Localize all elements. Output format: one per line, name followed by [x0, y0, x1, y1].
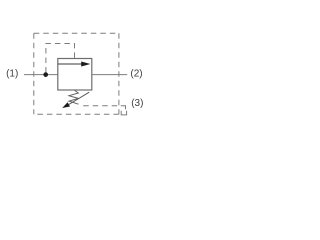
- wire valve to port 2: [92, 74, 127, 76]
- tank symbol: [121, 111, 126, 115]
- drain line from spring chamber to port 3: [83, 105, 119, 107]
- svg-text:(2): (2): [130, 69, 142, 80]
- wire port 1 to valve: [24, 74, 58, 76]
- boundary bottom side: [34, 113, 119, 115]
- boundary top side: [34, 32, 119, 34]
- boundary right side: [118, 33, 120, 114]
- outer dashed vent/drain boundary rectangle: [34, 33, 119, 114]
- adjustment arrow across spring: [62, 92, 89, 108]
- flow arrow inside valve: [58, 62, 90, 67]
- spring: [69, 90, 79, 104]
- svg-text:(3): (3): [131, 98, 143, 109]
- svg-text:(1): (1): [6, 69, 18, 80]
- relief valve body box: [58, 59, 92, 91]
- drain jog to tank: [121, 106, 126, 109]
- pilot line from inlet node up and over to valve top: [46, 44, 75, 73]
- junction dot node on inlet wire: [43, 72, 48, 77]
- boundary left side: [33, 33, 35, 114]
